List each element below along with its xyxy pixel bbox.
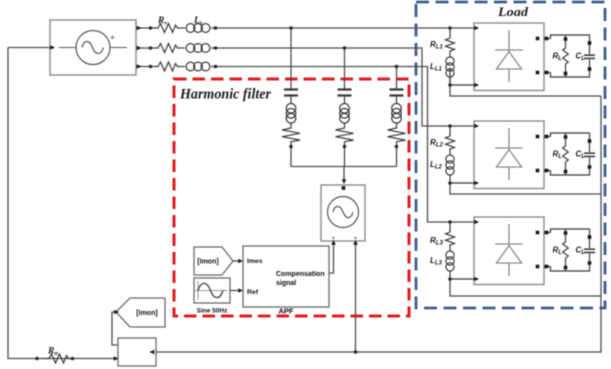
svg-text:APF: APF — [279, 307, 294, 316]
svg-text:Load: Load — [497, 4, 529, 19]
svg-text:signal: signal — [276, 280, 296, 287]
svg-text:Sine 50Hz: Sine 50Hz — [197, 308, 228, 315]
svg-text:Harmonic filter: Harmonic filter — [179, 87, 271, 103]
svg-text:[Imon]: [Imon] — [136, 310, 157, 317]
svg-text:Imes: Imes — [247, 258, 263, 265]
svg-text:Compensation: Compensation — [276, 271, 325, 278]
svg-text:Ref: Ref — [247, 289, 259, 296]
svg-text:[Imon]: [Imon] — [197, 259, 218, 266]
svg-text:+: + — [110, 32, 115, 42]
